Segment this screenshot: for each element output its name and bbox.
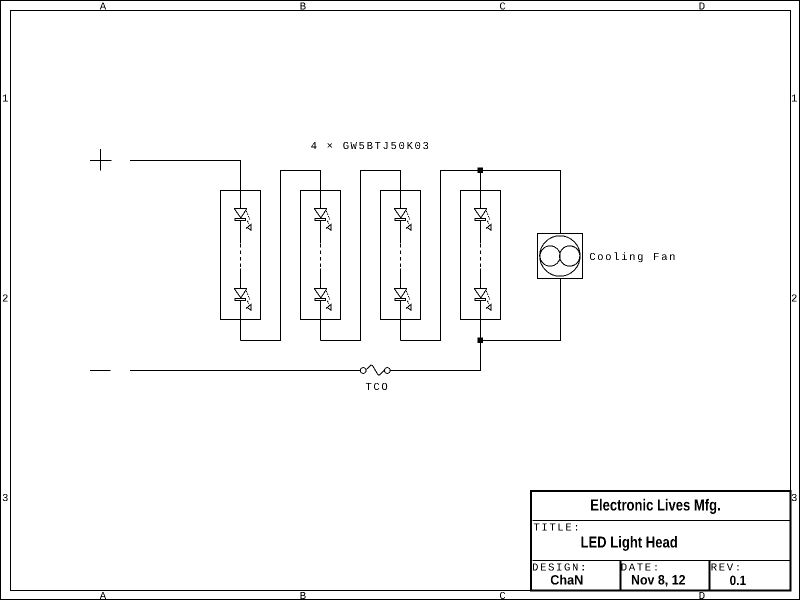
wire fan bottom branch <box>481 279 561 341</box>
svg-text:LED Light Head: LED Light Head <box>581 534 678 551</box>
svg-text:C: C <box>499 591 505 600</box>
minus terminal <box>90 370 111 372</box>
junction node bottom <box>478 338 483 343</box>
title block divider 2 <box>533 560 791 562</box>
wire serpentine D2 to D3 <box>321 171 401 341</box>
wire string D1 internal <box>240 221 242 341</box>
svg-text:0.1: 0.1 <box>730 573 747 588</box>
wire positive rail <box>130 161 241 210</box>
wire string D4 internal <box>480 171 482 371</box>
svg-text:A: A <box>100 591 107 600</box>
thermal cutoff TCO <box>360 365 390 375</box>
LED string box D2 <box>301 191 341 320</box>
junction node top <box>478 168 483 173</box>
LED D4 bottom <box>474 289 491 311</box>
svg-text:Nov 8, 12: Nov 8, 12 <box>631 573 686 588</box>
LED D2 top <box>314 209 331 231</box>
LED D3 top <box>394 209 411 231</box>
svg-text:D: D <box>699 2 705 14</box>
svg-text:D: D <box>699 591 705 600</box>
svg-text:2: 2 <box>791 294 797 306</box>
wire serpentine D3 to D4 <box>401 171 481 341</box>
wire string D3 internal <box>400 221 402 341</box>
LED string box D1 <box>221 191 261 320</box>
svg-text:ChaN: ChaN <box>550 573 583 588</box>
svg-text:A: A <box>100 2 107 14</box>
svg-text:2: 2 <box>2 294 8 306</box>
wire serpentine D1 to D2 <box>241 171 321 341</box>
svg-text:1: 1 <box>791 94 797 106</box>
LED D4 top <box>474 209 491 231</box>
LED D1 top <box>234 209 251 231</box>
LED string box D3 <box>381 191 421 320</box>
title block divider 1 <box>533 520 791 522</box>
title block vertical divider design-date <box>620 561 622 591</box>
title block outline <box>531 491 791 591</box>
wire negative rail <box>130 370 360 372</box>
svg-text:1: 1 <box>2 94 8 106</box>
LED D3 bottom <box>394 289 411 311</box>
wire TCO to node B <box>390 343 480 371</box>
svg-text:B: B <box>300 591 307 600</box>
LED D2 bottom <box>314 289 331 311</box>
svg-text:TCO: TCO <box>365 382 389 394</box>
wire fan top branch <box>481 171 561 234</box>
svg-text:3: 3 <box>791 493 797 505</box>
svg-text:C: C <box>499 2 505 14</box>
LED D1 bottom <box>234 289 251 311</box>
svg-text:Electronic Lives Mfg.: Electronic Lives Mfg. <box>590 497 720 515</box>
svg-text:TITLE:: TITLE: <box>533 522 581 534</box>
cooling fan M1 <box>538 234 583 279</box>
svg-text:Cooling Fan: Cooling Fan <box>589 252 677 264</box>
svg-text:3: 3 <box>2 493 8 505</box>
wire string D2 internal <box>320 221 322 341</box>
svg-text:B: B <box>300 2 307 14</box>
LED string box D4 <box>461 191 501 320</box>
plus terminal <box>90 149 112 171</box>
title block vertical divider date-rev <box>709 561 711 591</box>
svg-text:4 × GW5BTJ50K03: 4 × GW5BTJ50K03 <box>311 141 431 153</box>
